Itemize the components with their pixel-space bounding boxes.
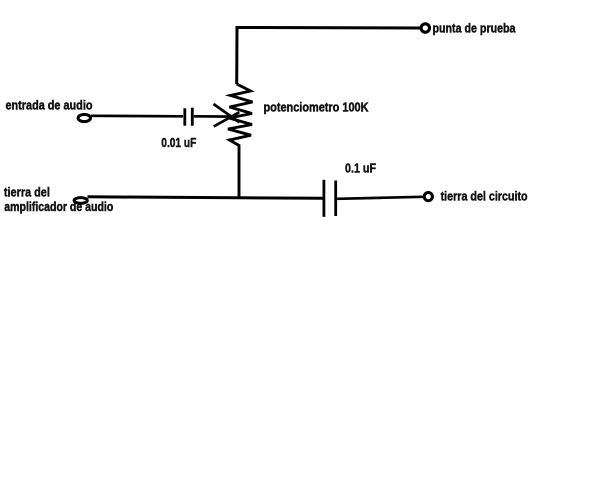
svg-text:0.01 uF: 0.01 uF — [161, 136, 196, 150]
svg-text:amplificador de audio: amplificador de audio — [4, 200, 113, 214]
svg-text:tierra del circuito: tierra del circuito — [441, 190, 528, 204]
svg-text:tierra del: tierra del — [4, 186, 50, 200]
svg-text:punta de prueba: punta de prueba — [433, 22, 517, 36]
svg-text:potenciometro 100K: potenciometro 100K — [264, 100, 369, 114]
svg-text:entrada de audio: entrada de audio — [6, 99, 93, 113]
svg-text:0.1 uF: 0.1 uF — [345, 162, 376, 176]
